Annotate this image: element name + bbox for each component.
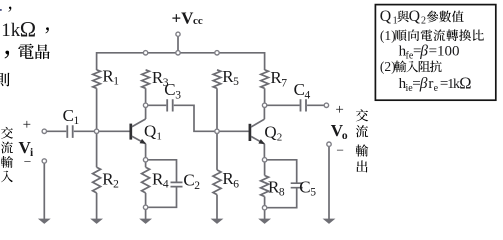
svg-text:(2): (2) <box>380 59 396 74</box>
svg-text:5: 5 <box>310 187 316 199</box>
resistor R4 <box>142 167 169 193</box>
svg-text:C: C <box>164 80 175 99</box>
node: R8/C5 bottom <box>262 206 266 210</box>
svg-text:1: 1 <box>156 131 162 143</box>
label: output - sign <box>336 142 344 157</box>
svg-text:−: − <box>336 142 344 157</box>
wire: Q1 emitter down to emitter node <box>145 144 147 160</box>
node: output - terminal <box>327 142 331 146</box>
node: input + terminal <box>42 129 46 133</box>
label: input voltage Vi <box>19 138 35 159</box>
capacitor C3 <box>164 80 181 111</box>
node: Q1 collector / R3 / C3 <box>143 103 147 107</box>
transistor Q2 <box>250 119 282 144</box>
node: rail junction at R5 branch <box>215 51 219 55</box>
svg-text:8: 8 <box>279 187 285 199</box>
node: Q1 emitter / R4 / C2 <box>143 158 147 162</box>
wire: emitter node to R4 <box>145 162 147 167</box>
resistor R2 <box>93 167 120 193</box>
wire: collector node to C4 <box>267 104 300 106</box>
svg-text:Q: Q <box>264 122 276 141</box>
caption: AC input (vertical) <box>1 127 13 182</box>
svg-text:4: 4 <box>163 179 169 191</box>
wire: emitter node to R8 <box>264 162 266 176</box>
svg-text:Q: Q <box>380 8 392 25</box>
svg-text:1: 1 <box>393 15 398 26</box>
svg-text:+: + <box>23 117 31 133</box>
wire: bottom node to ground <box>145 210 147 220</box>
ground: R6 <box>211 219 224 224</box>
capacitor C5 <box>267 160 317 208</box>
svg-text:C: C <box>183 171 194 190</box>
wire: R7 bottom to collector node of Q2 <box>264 88 266 105</box>
info box line 1: Q1 and Q2 parameters <box>380 8 464 26</box>
wire: divider node down to R6 and to ground <box>216 131 218 219</box>
caption: AC output (vertical) <box>356 109 368 172</box>
svg-text:Q: Q <box>409 8 421 25</box>
wire: +Vcc supply rail <box>97 53 265 70</box>
node: rail junction at Vcc stub <box>176 51 180 55</box>
capacitor C1 <box>63 106 80 138</box>
wire: Q1 collector up to node <box>145 105 147 119</box>
node: R5/R6 divider junction <box>215 129 219 133</box>
wire: Q2 emitter down to emitter node <box>263 144 265 160</box>
node: output + terminal <box>324 103 328 107</box>
resistor R7 <box>261 68 288 89</box>
info box line 5: hie = beta re = 1k ohm <box>399 73 472 94</box>
svg-text:2: 2 <box>277 132 283 144</box>
node: rail junction at R3 branch <box>143 51 147 55</box>
svg-text:C: C <box>63 106 74 125</box>
svg-text:1k: 1k <box>1 20 21 41</box>
svg-text:(1): (1) <box>380 28 396 43</box>
wire: input terminal to C1 <box>47 130 67 132</box>
node: Q2 collector / R7 / C4 <box>262 103 266 107</box>
ground: input <box>38 219 51 224</box>
node: input - terminal <box>42 159 46 163</box>
wire: input - terminal to ground <box>43 163 45 219</box>
svg-text:Q: Q <box>144 121 156 140</box>
svg-text:2: 2 <box>194 180 200 192</box>
label: output voltage Vo <box>331 121 348 142</box>
wire: R1 bottom to input base node <box>96 88 98 131</box>
svg-text:+: + <box>335 102 343 118</box>
svg-text:2: 2 <box>421 15 426 26</box>
svg-text:C: C <box>299 177 310 196</box>
svg-text:3: 3 <box>175 89 181 101</box>
wire: output - terminal to ground <box>328 146 330 219</box>
svg-text:−: − <box>24 154 32 169</box>
resistor R5 <box>213 67 239 88</box>
node: R4/C2 bottom <box>143 205 147 209</box>
label: input - sign <box>24 154 32 169</box>
wire: C4 to output terminal <box>307 104 324 106</box>
label: input + sign <box>23 117 31 133</box>
ground: output <box>323 219 336 224</box>
svg-text:o: o <box>342 130 348 142</box>
wire: R3 bottom to collector node of Q1 <box>145 88 147 105</box>
wire: R8 bottom lead <box>264 197 266 206</box>
capacitor C4 <box>294 80 311 111</box>
svg-text:β: β <box>419 75 428 92</box>
node: Q2 emitter / R8 / C5 <box>262 158 266 162</box>
svg-text:+V: +V <box>172 9 195 28</box>
svg-text:7: 7 <box>281 77 287 89</box>
svg-text:=100: =100 <box>429 43 460 59</box>
wire: bottom node to ground <box>264 210 266 219</box>
svg-text:5: 5 <box>233 76 239 88</box>
page text fragment line 2: 1k ohm <box>1 17 49 42</box>
wire: R4 bottom lead <box>145 193 147 205</box>
info box line 3: hfe = beta = 100 <box>399 42 460 61</box>
page text fragment line 4: 則 <box>0 73 10 87</box>
svg-text:Ω: Ω <box>459 73 471 92</box>
svg-text:cc: cc <box>193 15 203 27</box>
wire: collector node to C3 <box>148 104 167 106</box>
ground: R8/C5 <box>258 219 271 224</box>
node: base divider junction R1/R2 <box>94 129 98 133</box>
resistor R6 <box>213 169 239 194</box>
svg-text:4: 4 <box>305 89 311 101</box>
svg-text:β: β <box>419 42 428 59</box>
resistor R1 <box>93 66 120 88</box>
transistor Q1 <box>131 119 162 144</box>
wire: base node down to R2 and R2 to ground <box>96 131 98 219</box>
info box frame <box>375 5 495 101</box>
ground: R2 <box>90 219 103 224</box>
wire: R5 bottom to Q2 base node <box>216 88 218 131</box>
wire: C1 to Q1 base <box>74 130 130 132</box>
info box line 4: (2) input impedance <box>380 59 442 74</box>
resistor R3 <box>142 68 169 89</box>
info box line 2: (1) forward current gain <box>380 28 484 43</box>
svg-text:1: 1 <box>113 76 119 88</box>
svg-text:C: C <box>294 80 305 99</box>
page text fragment line 3 <box>5 44 50 59</box>
ground: R4/C2 <box>139 219 152 224</box>
page text fragment line 1 <box>0 7 11 12</box>
svg-text:1: 1 <box>74 115 80 127</box>
svg-text:2: 2 <box>113 179 119 191</box>
capacitor C2 <box>148 160 201 208</box>
label: output + sign <box>335 102 343 118</box>
resistor R8 <box>261 176 285 199</box>
svg-text:e: e <box>434 83 439 94</box>
wire: C3 to Q2 base line <box>174 105 249 131</box>
svg-text:Ω: Ω <box>20 17 36 42</box>
svg-text:6: 6 <box>233 178 239 190</box>
wire: Q2 collector up to node <box>263 105 265 119</box>
power supply +Vcc <box>172 9 203 53</box>
